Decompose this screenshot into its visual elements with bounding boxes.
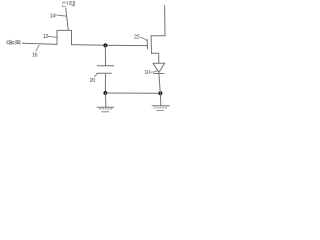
- label 22 with leader to Q22 gate: [134, 34, 147, 40]
- label 14 with leader to gate line: [50, 14, 67, 20]
- capacitor C20 plates: [97, 66, 114, 73]
- svg-text:14: 14: [50, 14, 56, 20]
- transistor Q22: channel bar: [150, 36, 152, 54]
- diode D10 (anode top, cathode bar below): [153, 63, 165, 93]
- label select-line text "선택" (hand-drawn tiny hangul strokes): [62, 1, 74, 7]
- label 12 with leader to Q12: [43, 34, 57, 40]
- svg-text:20: 20: [90, 78, 96, 84]
- transistor Q22: gate bar: [146, 39, 148, 49]
- label data-line text "데이터" (hand-drawn tiny hangul strokes): [7, 40, 20, 44]
- ground (right, under diode): [152, 93, 169, 110]
- svg-text:22: 22: [134, 34, 140, 40]
- transistor Q12 (access transistor, hat-shaped channel bump): [57, 30, 72, 44]
- wire: select gate line of Q12: [66, 8, 69, 30]
- node: storage node junction dot: [103, 43, 107, 47]
- wire: Q22 drain arm to top supply: [151, 5, 165, 35]
- svg-text:10: 10: [144, 70, 150, 76]
- label 10 with leader to diode D10: [144, 70, 157, 76]
- wire: data line from label to access transistor: [22, 43, 57, 44]
- svg-text:12: 12: [43, 34, 49, 40]
- wire: storage node down to capacitor: [104, 45, 106, 65]
- ground (left, under capacitor): [97, 93, 113, 112]
- wire: capacitor to bottom rail: [104, 73, 106, 93]
- svg-text:16: 16: [32, 52, 38, 58]
- wire: Q22 source arm down to diode: [152, 53, 159, 63]
- wire: bottom rail: [105, 92, 160, 94]
- wire: Q12 drain to storage node and to gate of Q22: [72, 45, 147, 46]
- label 16 with leader to data line: [32, 45, 39, 58]
- node: bottom-right junction dot: [158, 91, 162, 95]
- label 20 with leader to capacitor bottom plate: [90, 74, 98, 84]
- node: bottom-left junction dot: [103, 91, 107, 95]
